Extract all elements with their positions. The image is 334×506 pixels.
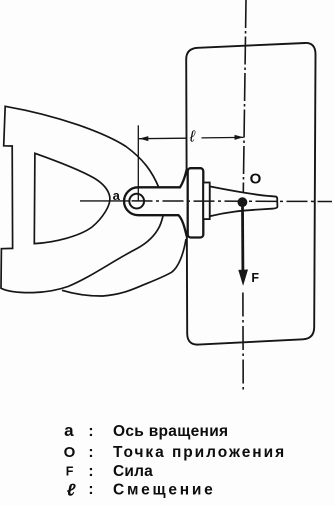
spindle shaft / clevis eye xyxy=(124,170,189,235)
svg-text:ℓ: ℓ xyxy=(189,128,196,145)
svg-text:O: O xyxy=(250,170,262,187)
svg-text:a: a xyxy=(113,188,121,203)
svg-text::: : xyxy=(88,444,93,461)
extension line at node a xyxy=(137,125,139,200)
svg-text:ℓ: ℓ xyxy=(67,481,76,500)
svg-text:Сила: Сила xyxy=(113,463,153,480)
svg-text:Ось вращения: Ось вращения xyxy=(113,423,228,440)
svg-text:F: F xyxy=(251,271,259,285)
svg-text:О: О xyxy=(64,444,76,461)
wheel (tire outline) xyxy=(186,43,315,345)
leader line to node a xyxy=(80,200,132,202)
control arm (wishbone) outer contour xyxy=(1,106,164,292)
control arm lower-band outer arc xyxy=(62,239,186,296)
hub flange plate xyxy=(188,168,204,237)
dimension arrowhead right xyxy=(235,135,244,140)
horizontal spindle axis (dash-dot) xyxy=(132,200,333,203)
svg-text:Точка приложения: Точка приложения xyxy=(113,444,286,461)
kingpin pivot circle (node a) xyxy=(129,194,144,209)
svg-text:Смещение: Смещение xyxy=(113,481,216,498)
point O dot xyxy=(238,197,248,207)
svg-text::: : xyxy=(88,481,93,498)
dimension arrowhead left xyxy=(139,136,148,141)
dimension line l (left segment) xyxy=(139,137,186,140)
spacer block on spindle xyxy=(203,183,209,220)
svg-text::: : xyxy=(88,423,93,440)
dimension line l (right segment) xyxy=(202,136,244,139)
wheel vertical centerline (bottom part) xyxy=(242,293,244,390)
svg-text:а: а xyxy=(64,421,74,440)
force arrow F xyxy=(241,204,244,272)
svg-text::: : xyxy=(88,463,93,480)
spindle cone xyxy=(210,186,278,216)
wheel vertical centerline (top part) xyxy=(243,0,246,192)
control arm inner opening (counter) xyxy=(34,153,110,243)
svg-text:F: F xyxy=(66,465,74,479)
